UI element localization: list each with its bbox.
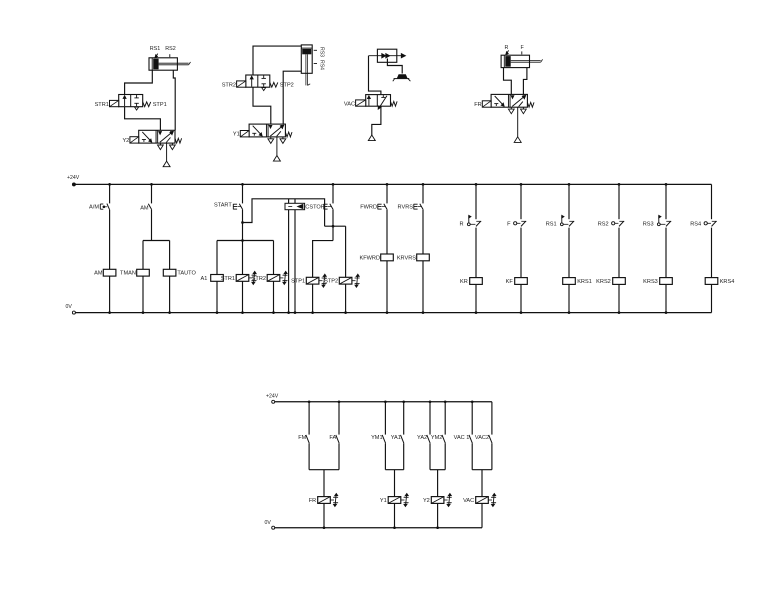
contact A/M selector	[89, 184, 110, 269]
valve STR2/STP2 (3/2)	[222, 75, 294, 91]
contact F limit switch	[507, 183, 526, 278]
svg-text:TMAN: TMAN	[120, 271, 136, 277]
svg-text:VAC 1: VAC 1	[454, 435, 470, 441]
solenoid coil STP2	[324, 226, 360, 314]
wire counter drop 2	[294, 199, 297, 314]
exhaust left of Y1	[268, 137, 274, 144]
relay coil AM	[94, 183, 116, 314]
svg-text:Y2: Y2	[423, 498, 430, 504]
solenoid coil STP1	[291, 274, 327, 314]
svg-text:FWRD: FWRD	[360, 204, 377, 210]
valve VAC (3/2)	[344, 95, 397, 110]
svg-text:FA: FA	[329, 435, 336, 441]
svg-text:A/M: A/M	[89, 205, 99, 211]
svg-text:STR1: STR1	[95, 102, 109, 108]
svg-text:TAUTO: TAUTO	[177, 271, 196, 277]
wire cyl1 right port to valve Y2	[173, 70, 175, 130]
cylinder 1 (RS1/RS2)	[149, 58, 191, 70]
cylinder 2 vertical (RS3/RS4)	[301, 45, 312, 86]
svg-text:START: START	[214, 203, 232, 209]
svg-text:+24V: +24V	[67, 175, 80, 181]
+24V rail (middle)	[67, 175, 712, 186]
svg-text:YM2: YM2	[431, 435, 443, 441]
contact RVRS pushbutton	[398, 183, 425, 254]
relay coil KRS4	[705, 278, 734, 313]
svg-text:Y1: Y1	[380, 498, 387, 504]
contact RS3 limit switch	[643, 183, 672, 278]
branch node VAC	[472, 470, 492, 497]
suction cup	[393, 74, 411, 81]
svg-text:STR2: STR2	[222, 82, 236, 88]
svg-text:0V: 0V	[66, 304, 73, 310]
label RS1	[150, 46, 161, 58]
svg-text:KRVRS: KRVRS	[397, 255, 416, 261]
contact RS1 limit switch	[546, 183, 575, 278]
relay coil KFWRD	[359, 254, 393, 314]
contact FM	[298, 400, 310, 469]
svg-text:STR1: STR1	[221, 276, 235, 282]
svg-text:RVRS: RVRS	[398, 204, 414, 210]
svg-text:+24V: +24V	[266, 394, 279, 400]
svg-text:RS4: RS4	[319, 60, 325, 70]
contact START pushbutton	[214, 183, 244, 242]
svg-text:VAC: VAC	[463, 498, 474, 504]
svg-text:KRS3: KRS3	[643, 279, 658, 285]
solenoid coil Y2	[423, 494, 452, 530]
+24V rail (bottom)	[266, 394, 492, 404]
wire valve STR2 to valve Y1	[253, 87, 271, 124]
supply of Y2	[163, 143, 170, 167]
label RS4	[314, 60, 325, 70]
contact YA1	[391, 400, 405, 469]
relay coil KF	[506, 278, 528, 314]
svg-text:YA2: YA2	[417, 435, 427, 441]
vacuum generator	[369, 49, 406, 62]
svg-text:RS1: RS1	[150, 46, 161, 52]
solenoid coil FR	[309, 494, 338, 530]
solenoid coil Y1	[380, 494, 409, 530]
label R cyl	[504, 45, 508, 55]
solenoid coil VAC	[463, 494, 496, 528]
wire cyl1 left port to valve STR1	[125, 70, 153, 94]
cylinder 3 (R/F)	[501, 55, 542, 67]
svg-text:R: R	[504, 45, 508, 51]
svg-text:STP2: STP2	[324, 279, 338, 285]
branch node A1/STR1/STR2	[217, 240, 274, 242]
svg-text:F: F	[507, 221, 511, 227]
svg-text:RS1: RS1	[546, 221, 557, 227]
valve Y1 (5/2)	[233, 124, 292, 138]
wire START to CSTOP net	[243, 199, 325, 226]
svg-text:AM: AM	[94, 271, 103, 277]
contact YA2	[417, 400, 431, 469]
0V rail (bottom)	[265, 520, 483, 529]
svg-text:RS3: RS3	[643, 221, 654, 227]
contact YM1	[371, 400, 387, 469]
wire valve VAC to supply	[372, 106, 381, 135]
supply of Y1	[273, 137, 280, 161]
exhaust right of Y2	[170, 143, 176, 150]
svg-text:YM1: YM1	[371, 435, 383, 441]
svg-text:KRS2: KRS2	[596, 279, 611, 285]
label RS2	[165, 46, 176, 57]
contact RS2 limit switch	[598, 183, 625, 278]
wire venturi inlet to valve VAC	[369, 56, 381, 95]
contact VAC 1	[454, 400, 474, 469]
svg-text:STP1: STP1	[291, 279, 305, 285]
valve Y2 (5/2)	[122, 130, 181, 144]
exhaust right of Y1	[280, 137, 286, 144]
wire cyl3 right port to valve FR	[523, 68, 527, 95]
svg-text:KR: KR	[460, 279, 468, 285]
svg-text:FR: FR	[309, 498, 316, 504]
svg-text:RS3: RS3	[319, 47, 325, 57]
valve STR1/STP1 (3/2)	[95, 95, 167, 111]
svg-text:VAC: VAC	[344, 101, 355, 107]
svg-text:STR2: STR2	[252, 276, 266, 282]
svg-text:KRS4: KRS4	[720, 279, 735, 285]
svg-text:Y2: Y2	[122, 138, 129, 144]
svg-text:RS2: RS2	[165, 46, 176, 52]
svg-text:A1: A1	[201, 276, 208, 282]
svg-text:CSTOP: CSTOP	[305, 204, 324, 210]
svg-text:Y1: Y1	[233, 132, 240, 138]
svg-text:YA1: YA1	[391, 435, 401, 441]
contact VAC2	[475, 402, 492, 470]
svg-text:STP2: STP2	[280, 82, 294, 88]
relay coil KRS1	[563, 278, 592, 314]
svg-text:KF: KF	[506, 279, 514, 285]
svg-text:KFWRD: KFWRD	[359, 255, 380, 261]
contact YM2	[431, 400, 447, 469]
svg-text:FR: FR	[474, 102, 481, 108]
wire valve STR1 to valve Y2	[125, 107, 161, 131]
wire venturi to suction cup	[387, 59, 402, 74]
svg-text:STP1: STP1	[153, 102, 167, 108]
branch node Y2	[430, 470, 445, 497]
contact CSTOP pushbutton	[305, 183, 334, 241]
contact AM	[140, 183, 153, 240]
svg-text:KRS1: KRS1	[577, 279, 592, 285]
relay coil KRS2	[596, 278, 625, 314]
relay coil KRVRS	[397, 254, 429, 314]
svg-text:AM: AM	[140, 205, 149, 211]
wire CSTOP to STP1	[313, 241, 333, 278]
branch node FR	[309, 470, 339, 497]
0V rail (middle)	[66, 304, 712, 314]
svg-text:RS2: RS2	[598, 221, 609, 227]
counter box	[285, 203, 305, 209]
supply of VAC valve	[368, 135, 375, 141]
relay coil KR	[460, 278, 482, 314]
supply of FR	[514, 107, 521, 142]
wire cyl2 top port to valve STR2	[253, 46, 301, 75]
node CSTOP branch	[325, 225, 346, 227]
valve FR (5/2)	[474, 94, 534, 108]
svg-text:RS4: RS4	[690, 221, 701, 227]
relay coil A1	[201, 241, 224, 314]
exhaust left of FR	[508, 107, 514, 114]
contact FA	[329, 400, 340, 469]
svg-text:VAC2: VAC2	[475, 435, 489, 441]
exhaust left of Y2	[158, 143, 164, 150]
label F cyl	[521, 45, 525, 55]
contact FWRD pushbutton	[360, 183, 388, 254]
relay coil TMAN	[120, 241, 149, 314]
relay coil TAUTO	[163, 241, 196, 314]
exhaust right of FR	[521, 107, 527, 114]
relay coil KRS3	[643, 278, 672, 314]
label RS3	[314, 47, 325, 57]
svg-text:0V: 0V	[265, 520, 272, 526]
wire cyl2 bottom port to valve Y1	[283, 71, 301, 124]
contact RS4 limit switch	[690, 184, 717, 277]
contact R limit switch	[460, 183, 482, 278]
solenoid coil STR2	[252, 241, 288, 314]
wire counter drop 1	[287, 199, 290, 314]
wire cyl3 left port to valve FR	[504, 68, 512, 95]
branch node Y1	[385, 470, 403, 497]
svg-text:R: R	[460, 221, 464, 227]
svg-text:FM: FM	[298, 435, 306, 441]
solenoid coil STR1	[221, 241, 257, 314]
branch node TMAN/TAUTO	[143, 240, 170, 242]
